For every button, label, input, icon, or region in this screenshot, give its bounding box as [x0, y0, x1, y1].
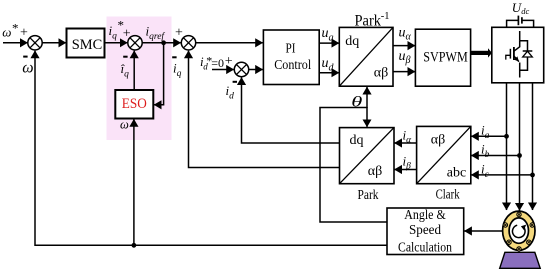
svg-text:ESO: ESO	[122, 96, 147, 112]
svg-text:-1: -1	[381, 11, 390, 22]
wire J1 to SMC	[42, 42, 66, 44]
motor M stator ring	[503, 211, 535, 250]
wire J2 to J3	[142, 42, 181, 44]
transistor Q1 emitter with arrow	[514, 56, 519, 62]
wire phase c	[532, 83, 534, 210]
wire u-beta	[393, 71, 415, 73]
svg-text:ib: ib	[481, 142, 490, 161]
node omega branch to ESO	[132, 243, 137, 248]
svg-text:SMC: SMC	[72, 37, 103, 53]
wire ud PI to Park-1	[319, 72, 339, 74]
svg-text:uq: uq	[322, 26, 334, 44]
diode D1 anode lead	[520, 57, 528, 70]
svg-text:ω*: ω*	[2, 20, 18, 39]
node ic tap	[530, 173, 535, 178]
wire ic to Clark	[471, 174, 532, 176]
wire dc-link right	[522, 20, 534, 27]
transistor Q1 body bar	[513, 47, 515, 60]
svg-text:ic: ic	[481, 162, 490, 181]
wire omega feedback to J1	[35, 51, 387, 246]
motor M bolt bottom	[517, 247, 521, 251]
svg-text:Control: Control	[274, 58, 311, 73]
diode D1 cathode bar	[523, 50, 533, 52]
svg-text:dq: dq	[345, 34, 359, 49]
motor M bolt upper-right	[530, 223, 534, 227]
label minus J4	[233, 81, 237, 83]
motor M rotation arrow	[512, 225, 525, 237]
transistor Q1 IGBT collector lead	[519, 31, 521, 41]
svg-text:Speed: Speed	[409, 222, 441, 237]
motor M base	[500, 252, 541, 268]
svg-text:ω: ω	[120, 118, 129, 132]
wire ia to Clark	[471, 135, 506, 137]
svg-text:ud: ud	[322, 56, 335, 74]
wire J3 to PI	[196, 42, 263, 44]
svg-text:Park: Park	[358, 188, 379, 203]
svg-text:Calculation: Calculation	[398, 240, 452, 255]
svg-text:SVPWM: SVPWM	[423, 50, 468, 66]
svg-text:uβ: uβ	[399, 49, 411, 66]
svg-text:uα: uα	[399, 26, 412, 43]
svg-text:Angle &: Angle &	[404, 207, 446, 222]
motor M bolt upper-left	[503, 223, 507, 227]
block SVPWM	[415, 29, 470, 86]
wire id* input	[212, 69, 234, 71]
label minus J1	[23, 56, 27, 58]
block PI Control	[263, 30, 319, 85]
block Angle Speed Calculation	[387, 208, 464, 255]
summing junction J3	[181, 36, 195, 50]
block SMC	[67, 29, 105, 58]
block Park inverse	[339, 27, 393, 86]
label minus J2	[123, 56, 127, 58]
wire omega* input	[3, 42, 28, 44]
node ib tap	[517, 153, 522, 158]
transistor Q1 gate bar	[509, 49, 511, 59]
svg-text:Udc: Udc	[512, 0, 530, 16]
wire i-alpha Clark to Park	[394, 142, 416, 144]
wire iqref to ESO	[154, 43, 164, 105]
capacitor Udc plate left	[517, 16, 519, 26]
svg-text:iq: iq	[173, 61, 182, 80]
svg-text:αβ: αβ	[368, 164, 382, 179]
svg-text:+: +	[175, 26, 183, 41]
wire to diode branch	[520, 41, 528, 51]
wire i-beta Clark to Park	[394, 169, 416, 171]
svg-text:+: +	[20, 26, 28, 41]
motor M rotor	[509, 218, 528, 243]
svg-text:ia: ia	[481, 123, 490, 142]
svg-text:dq: dq	[350, 133, 364, 148]
summing junction J1	[28, 36, 42, 50]
wire theta up to Park-1	[366, 87, 368, 108]
wire omega to ESO	[133, 119, 135, 245]
wire id feedback Park to J4	[242, 77, 340, 143]
svg-text:PI: PI	[286, 42, 296, 57]
motor M bolt lower-left	[507, 240, 511, 244]
motor M bolt lower-right	[527, 240, 531, 244]
wire phase a	[506, 83, 508, 210]
svg-text:αβ: αβ	[374, 65, 388, 80]
transistor Q1 collector diagonal	[514, 41, 520, 51]
svg-text:abc: abc	[447, 166, 466, 181]
wire theta from Angle block	[320, 108, 387, 223]
block Park	[340, 128, 395, 184]
node iqref branch	[161, 40, 166, 45]
svg-text:id: id	[226, 83, 235, 102]
wire uq PI to Park-1	[319, 42, 339, 44]
svg-text:+: +	[225, 54, 233, 69]
svg-text:ω: ω	[22, 60, 33, 77]
summing junction J2	[128, 36, 142, 50]
ESO highlight region (pink)	[107, 17, 172, 141]
svg-text:Clark: Clark	[436, 188, 460, 203]
summing junction J4	[234, 62, 248, 76]
motor M bolt crosses	[518, 213, 520, 215]
transistor Q1 emitter lead	[519, 63, 521, 78]
wire theta down to Park	[366, 107, 368, 127]
capacitor Udc plate right	[521, 17, 523, 23]
wire iq feedback Park to J3	[189, 51, 340, 168]
wire ESO output iq-hat to J2	[133, 51, 135, 90]
thick arrow SVPWM to inverter	[471, 51, 488, 55]
node ia tap	[504, 134, 509, 139]
wire ib to Clark	[471, 155, 519, 157]
wire SMC to J2	[105, 42, 128, 44]
label minus J3	[172, 56, 176, 58]
wire motor to Angle block	[464, 230, 503, 232]
wire J4 to PI	[249, 69, 263, 71]
wire u-alpha	[393, 45, 415, 47]
wire phase b	[519, 83, 521, 211]
diode D1 triangle	[523, 51, 533, 57]
wire dc-link left	[507, 20, 519, 27]
transistor Q1 gate lead	[506, 55, 511, 59]
block ESO	[115, 90, 153, 119]
block inverter	[492, 27, 544, 83]
motor M bolt top	[517, 212, 521, 216]
svg-text:=0: =0	[211, 56, 224, 70]
svg-text:αβ: αβ	[431, 133, 445, 148]
block Clark	[417, 126, 471, 183]
